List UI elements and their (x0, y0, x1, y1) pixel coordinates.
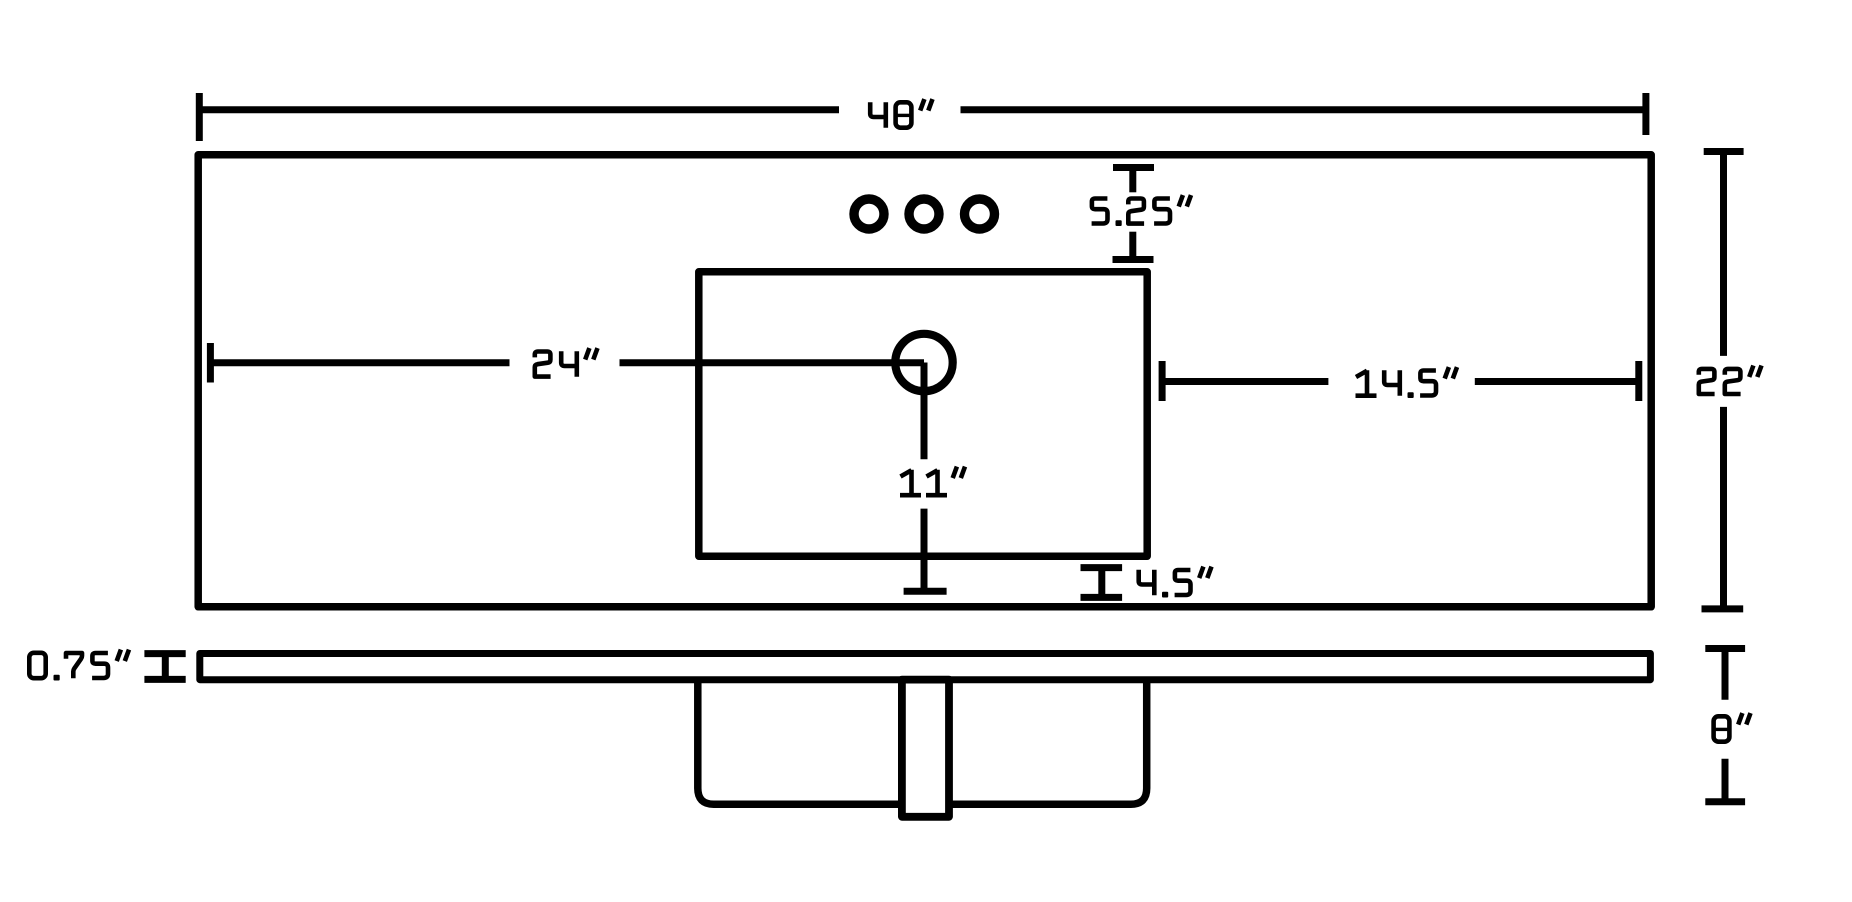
faucet hole right (965, 199, 995, 229)
dim 22in line lower segment (1720, 407, 1727, 609)
dim 8in line lower segment (1722, 759, 1729, 802)
dim 48in right tick (1642, 93, 1649, 135)
dim 0.75in bottom bar (144, 676, 185, 683)
label 48 inch (870, 99, 932, 128)
dim 5.25in line lower segment (1129, 232, 1136, 260)
label 8 inch (1714, 713, 1751, 742)
faucet hole center (909, 199, 939, 229)
label 4.5 inch (1139, 567, 1212, 598)
dim 22in line upper segment (1720, 152, 1727, 356)
dim 4.5in bottom bar (1081, 594, 1123, 601)
dim 24in left tick (207, 343, 214, 383)
dim 0.75in top bar (144, 650, 185, 657)
dim 8in line upper segment (1722, 649, 1729, 700)
label 14.5 inch (1356, 367, 1458, 398)
countertop side-view slab (200, 654, 1651, 680)
dim 8in bottom tick (1705, 798, 1745, 805)
dim 4.5in vertical (1098, 568, 1105, 598)
dim 11in bottom tick (904, 588, 947, 595)
dim 4.5in top bar (1081, 564, 1123, 571)
dim 14.5in left tick (1159, 361, 1166, 401)
dim 5.25in line upper segment (1129, 168, 1136, 193)
label 5.25 inch (1092, 195, 1191, 226)
dim 0.75in vertical (162, 654, 169, 680)
label 11 inch (900, 467, 965, 496)
dim 5.25in top tick (1113, 164, 1154, 171)
dim 14.5in line right segment (1475, 378, 1639, 385)
dim 5.25in bottom tick (1113, 256, 1154, 263)
sink cutout outline (699, 272, 1147, 556)
drain pipe side view (902, 680, 949, 817)
dim 24in line left segment (210, 359, 509, 366)
dim 11in line upper segment from drain center (921, 363, 928, 460)
drain hole (895, 334, 952, 391)
dim 24in line right segment to drain center (620, 359, 925, 366)
label 0.75 inch (29, 650, 129, 681)
dim 14.5in right tick (1635, 361, 1642, 401)
label 24 inch (535, 348, 598, 377)
dim 8in top tick (1705, 645, 1745, 652)
dim 48in line right segment (961, 106, 1646, 113)
dim 22in top tick (1704, 148, 1744, 155)
dim 14.5in line left segment (1162, 378, 1328, 385)
label 22 inch (1699, 366, 1762, 395)
dim 22in bottom tick (1702, 605, 1744, 612)
dim 11in line lower segment (921, 509, 928, 592)
faucet hole left (854, 199, 884, 229)
dim 48in line left segment (199, 106, 839, 113)
dim 48in left tick (196, 93, 203, 141)
sink bowl side view (698, 679, 1147, 804)
countertop top-view outline (198, 155, 1651, 607)
